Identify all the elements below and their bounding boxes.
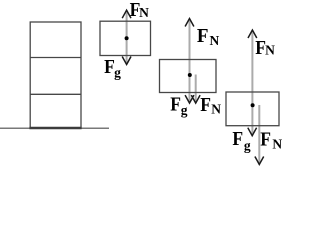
FBD2 label F_N top xyxy=(197,26,220,48)
FBD3 label F_g bottom xyxy=(232,128,251,153)
FBD2 F_N up arrowhead xyxy=(185,19,194,27)
FBD1 block rectangle xyxy=(100,21,151,55)
svg-text:F: F xyxy=(170,93,181,115)
FBD2 label F_g bottom xyxy=(170,93,187,117)
FBD2 F_g down arrowhead xyxy=(185,95,194,103)
FBD1 label F_g xyxy=(104,56,121,80)
FBD1 center dot xyxy=(125,36,129,40)
FBD3 F_N up arrowhead xyxy=(248,30,257,38)
svg-text:F: F xyxy=(200,94,211,116)
FBD3 block rectangle xyxy=(226,92,279,126)
svg-text:g: g xyxy=(114,65,121,80)
FBD2 label F_N bottom xyxy=(200,94,221,116)
block stack outline xyxy=(30,22,81,128)
svg-text:F: F xyxy=(260,128,271,150)
FBD1 label F_N xyxy=(130,0,150,22)
svg-text:N: N xyxy=(139,5,149,20)
svg-text:N: N xyxy=(210,33,220,48)
svg-text:F: F xyxy=(232,128,243,150)
FBD3 center dot xyxy=(251,103,255,107)
FBD3 second down shaft (F_N down, long) xyxy=(258,105,260,164)
FBD2 block rectangle xyxy=(160,60,217,93)
svg-text:N: N xyxy=(211,101,221,116)
FBD3 F_N down arrowhead (long arrow) xyxy=(255,157,264,165)
ground line xyxy=(0,127,109,129)
svg-text:N: N xyxy=(265,43,275,58)
FBD2 F_N down arrowhead xyxy=(191,95,200,103)
FBD2 main arrow shaft (F_N up / F_g down) xyxy=(189,19,191,103)
svg-text:N: N xyxy=(272,137,282,152)
svg-text:F: F xyxy=(197,26,209,48)
FBD3 label F_N top xyxy=(255,37,275,59)
FBD1 F_g down arrowhead xyxy=(122,57,131,65)
block divider 1 xyxy=(30,57,81,59)
FBD2 second down shaft (F_N down) xyxy=(195,75,197,103)
FBD2 center dot xyxy=(188,73,192,77)
FBD1 F_N up arrowhead xyxy=(122,10,131,18)
block divider 2 xyxy=(30,93,81,95)
FBD3 main arrow shaft (F_N up / F_g down) xyxy=(251,30,253,135)
FBD1 arrow shaft (F_N up / F_g down) xyxy=(126,10,128,64)
svg-text:g: g xyxy=(244,138,251,153)
FBD3 label F_N bottom xyxy=(260,128,282,151)
FBD3 F_g down arrowhead xyxy=(248,128,257,136)
block stack bottom bold edge xyxy=(29,127,81,129)
svg-text:g: g xyxy=(181,102,188,117)
